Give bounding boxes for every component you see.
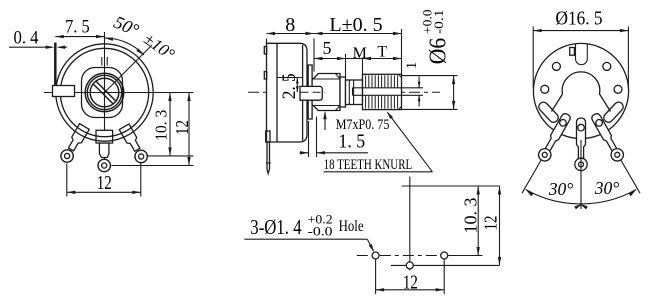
side view: threaded bushing: [312, 74, 340, 111]
front view: side lug rectangle: [53, 86, 75, 97]
extension line from right eyelet: [148, 155, 194, 157]
svg-text:Ø16. 5: Ø16. 5: [556, 9, 603, 30]
svg-text:L±0. 5: L±0. 5: [329, 14, 382, 36]
rear view: rivet top-left: [552, 62, 560, 70]
side view: bottom terminal pin: [267, 142, 270, 174]
label 3-diameter1.4 hole with leader: [244, 212, 374, 253]
side view: mounting washer: [308, 65, 312, 119]
dimension 1.5 (washer): [300, 117, 369, 158]
dimension 12 vertical (front view): [172, 93, 192, 166]
front view: right terminal: [119, 124, 150, 165]
side view: knurl teeth lines: [365, 75, 367, 87]
svg-text:10. 3: 10. 3: [152, 110, 171, 141]
extension line from center eyelet: [112, 165, 194, 167]
svg-text:Ø6: Ø6: [426, 38, 452, 64]
rear view: top notch: [575, 44, 577, 59]
rear view: tilted lug left: [537, 100, 560, 124]
side view: body inner right line: [302, 45, 304, 141]
label diameter 6 with tolerance: [420, 10, 452, 65]
front view: center boss outline: [82, 68, 123, 118]
side view: cover seam line: [276, 43, 278, 142]
footprint: right hole: [441, 252, 448, 259]
50 degree angle arc: [105, 38, 145, 56]
side view: screwdriver slot: [353, 87, 402, 89]
side view: left crimp tab top: [264, 47, 266, 55]
footprint: top reference line: [402, 185, 500, 187]
side view: bushing chamfer br: [336, 106, 341, 111]
front view: top cover notch: [101, 57, 103, 66]
dimension 12 vertical (footprint): [481, 186, 502, 265]
svg-text:1: 1: [404, 62, 420, 70]
front view: left terminal: [59, 123, 90, 164]
side view: bushing step ring: [340, 77, 346, 107]
svg-text:Hole: Hole: [339, 218, 364, 235]
front view: cover inner circle: [60, 48, 148, 136]
label 18 TEETH KNURL with leader: [324, 111, 433, 173]
rear view: center terminal: [575, 118, 587, 171]
side view: body outline: [267, 43, 308, 142]
dimension 8 (body depth): [267, 14, 315, 72]
rear view: rivet right: [614, 85, 622, 93]
svg-text:M: M: [353, 45, 367, 62]
front view: horizontal center line: [44, 92, 194, 94]
rear view: tilted lug right: [602, 100, 625, 124]
svg-text:30°: 30°: [548, 179, 574, 199]
svg-text:12: 12: [403, 272, 418, 293]
dimension 1 (slot width): [402, 62, 423, 107]
footprint: vertical center line: [409, 177, 411, 271]
svg-text:2. 5: 2. 5: [279, 73, 300, 99]
dimension 7.5: [55, 17, 104, 39]
side view: knurl right chamfers: [398, 74, 401, 77]
footprint: middle hole: [406, 262, 413, 269]
rear view: rivet top-right: [603, 62, 611, 70]
svg-text:18 TEETH KNURL: 18 TEETH KNURL: [324, 157, 413, 173]
rear view: body circle: [533, 43, 628, 138]
rear view: 30 degree rays and arc: [522, 140, 640, 209]
footprint: left hole: [372, 252, 379, 259]
front view: vertical center line: [104, 32, 106, 171]
side view: inner line 2.5 ref: [277, 77, 303, 79]
dimension 5 (bushing length): [314, 38, 346, 77]
dimension 12 bottom (footprint): [376, 260, 445, 295]
footprint: horizontal center line through side holes: [357, 255, 452, 257]
svg-text:-0.0: -0.0: [308, 224, 333, 239]
svg-text:7. 5: 7. 5: [65, 17, 90, 38]
rear view: element arch: [552, 72, 611, 112]
svg-text:10. 3: 10. 3: [461, 197, 481, 233]
front view: shaft inner circle: [90, 78, 119, 107]
dimension 10.3 (footprint): [448, 186, 483, 256]
footprint: line through middle hole: [391, 264, 500, 266]
svg-text:5: 5: [323, 38, 332, 58]
dimension L plus-minus 0.5 (shaft length): [314, 14, 402, 74]
dimension 0.4 with leader: [9, 28, 67, 49]
svg-text:12: 12: [172, 120, 192, 135]
dimension diameter 6 (shaft): [402, 76, 458, 110]
svg-text:3-Ø1. 4: 3-Ø1. 4: [250, 215, 301, 239]
svg-text:1. 5: 1. 5: [338, 131, 365, 153]
front view: 0.4 thick lug edge line: [54, 43, 57, 86]
dimension diameter 16.5: [533, 9, 628, 88]
front view: shaft middle circle: [87, 75, 121, 109]
front view: shaft outer circle: [85, 73, 124, 112]
front view: shaft slot lines: [96, 81, 116, 101]
svg-text:12: 12: [97, 173, 112, 194]
side view: bushing chamfer tr: [336, 74, 341, 80]
side view: horizontal center line: [248, 91, 440, 93]
svg-text:12: 12: [481, 216, 501, 231]
rear view: left terminal: [536, 111, 573, 163]
label M7xP0.75 with leader: [323, 111, 389, 133]
angle pointer line: [105, 45, 153, 93]
rear view: rivet left: [541, 85, 549, 93]
svg-text:T: T: [377, 44, 387, 61]
dimension 10.3 (front view): [152, 93, 172, 156]
side view: knurled shaft end: [363, 74, 402, 109]
svg-text:0. 4: 0. 4: [14, 28, 39, 49]
side view: left crimp tab bottom: [266, 131, 270, 142]
rear view: right terminal: [589, 111, 626, 163]
svg-text:8: 8: [285, 14, 295, 36]
side view: center line over lug bar: [301, 91, 326, 93]
side view: left crimp tab mid: [264, 72, 266, 80]
rear view: anti-rotation tab mark: [570, 48, 575, 56]
dimension M (neck length): [346, 45, 367, 75]
dimension 2.5 (side view): [279, 73, 300, 99]
svg-text:-0.1: -0.1: [431, 10, 446, 35]
front view: center terminal shoulder: [96, 130, 113, 143]
dimension 12 bottom (front view): [67, 163, 141, 197]
side view: shaft neck: [346, 80, 363, 105]
side view: locating lug bar: [300, 86, 322, 100]
front view: center terminal: [98, 143, 110, 172]
front view: outer body circle: [56, 44, 153, 141]
svg-text:30°: 30°: [594, 178, 620, 198]
dimension T (knurl length): [363, 44, 402, 61]
